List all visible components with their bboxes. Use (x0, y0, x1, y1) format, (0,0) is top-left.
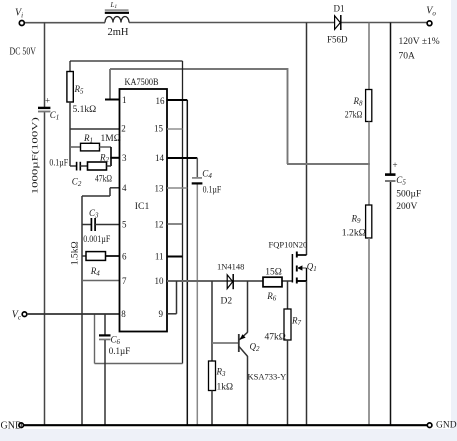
inductor L1 (105, 1, 129, 38)
svg-text:+: + (393, 160, 398, 170)
svg-text:2mH: 2mH (108, 27, 129, 38)
wire pin 9 stub (167, 313, 177, 315)
svg-text:70A: 70A (399, 52, 416, 62)
diode D2 (227, 275, 233, 289)
svg-text:5: 5 (122, 220, 127, 230)
svg-text:2: 2 (121, 124, 126, 134)
transistor Q1 FQP10N20 (269, 239, 317, 283)
svg-text:1.2kΩ: 1.2kΩ (342, 229, 366, 239)
capacitor C6 (104, 314, 106, 335)
terminal Vo (427, 21, 432, 26)
svg-text:200V: 200V (396, 202, 417, 212)
svg-text:1000µF(100V): 1000µF(100V) (29, 117, 39, 194)
pin numbers left (121, 95, 127, 319)
svg-text:4: 4 (122, 183, 127, 193)
svg-text:3: 3 (122, 153, 127, 163)
svg-text:500µF: 500µF (396, 190, 421, 200)
svg-text:12: 12 (155, 220, 164, 230)
resistor R5 (67, 72, 73, 103)
svg-text:8: 8 (121, 309, 126, 319)
svg-text:11: 11 (155, 252, 164, 262)
wire pin 13 stub (167, 187, 187, 189)
wire top rail (25, 22, 428, 24)
svg-text:1MΩ: 1MΩ (101, 134, 121, 144)
svg-text:DC 50V: DC 50V (10, 47, 37, 58)
wire R7 branch (287, 281, 289, 309)
resistor R1 (70, 146, 81, 148)
wire pin 4 jog (110, 187, 120, 189)
terminal Vi (19, 21, 24, 26)
wire C5 branch (390, 23, 392, 175)
wire pin 10 long (167, 280, 292, 282)
op-amp IC1 KA7500B box (120, 89, 168, 332)
wire x70 down to C2 (69, 129, 71, 166)
svg-text:13: 13 (155, 184, 165, 194)
wire R5 bottom (69, 102, 71, 129)
wire pin 1 stub (105, 99, 120, 101)
capacitor C3 (82, 224, 91, 226)
svg-text:5.1kΩ: 5.1kΩ (73, 105, 97, 115)
wire R9 to GND (368, 238, 370, 425)
svg-text:1: 1 (122, 95, 127, 105)
wire feedback net pin1 (110, 68, 370, 164)
svg-text:KA7500B: KA7500B (125, 78, 159, 88)
svg-text:6: 6 (122, 252, 127, 262)
svg-text:14: 14 (155, 153, 165, 163)
wire R8 to R9 (368, 122, 370, 206)
wire pin 16 stub and ground line (167, 99, 187, 101)
svg-text:0.1µF: 0.1µF (49, 159, 68, 169)
wire pin 7 stub (82, 280, 120, 282)
svg-text:0.1µF: 0.1µF (109, 346, 130, 356)
terminal Vc (22, 312, 27, 317)
wire x82 vertical to GND (81, 196, 83, 425)
svg-text:GND: GND (1, 421, 23, 432)
diode D1 (327, 3, 348, 44)
capacitor C5 (385, 160, 421, 212)
wire Vc to pin 8 (27, 313, 120, 315)
wire R1/R2 right join to pin 3 (110, 147, 112, 166)
svg-text:0.1µF: 0.1µF (203, 184, 222, 194)
resistor R3 (209, 361, 216, 391)
svg-text:10: 10 (155, 276, 165, 286)
svg-text:47kΩ: 47kΩ (265, 333, 286, 343)
svg-text:GND: GND (436, 421, 457, 431)
svg-text:16: 16 (156, 96, 166, 106)
wire pin 2 stub (70, 128, 120, 130)
svg-text:120V ±1%: 120V ±1% (399, 37, 440, 47)
capacitor C2 (70, 165, 76, 167)
resistor R6 (263, 277, 282, 287)
svg-text:27kΩ: 27kΩ (345, 111, 363, 121)
svg-text:FQP10N20: FQP10N20 (269, 239, 308, 249)
resistor R7 (284, 309, 291, 340)
svg-text:F56D: F56D (327, 35, 348, 45)
svg-text:7: 7 (122, 276, 127, 286)
wire R3 branch (211, 281, 213, 361)
capacitor C1 (29, 96, 59, 195)
ground terminal right (427, 423, 432, 428)
wire C1 branch (44, 23, 46, 108)
svg-text:D2: D2 (221, 297, 233, 307)
svg-text:0.001µF: 0.001µF (83, 234, 110, 244)
ground bus (24, 424, 428, 426)
capacitor C4 (192, 177, 202, 179)
wire Q1 source to GND (306, 281, 308, 425)
wire pin 15 stub (167, 128, 183, 130)
wire pin 11 stub (167, 256, 183, 258)
wire pin 14 stub to C4 (167, 157, 197, 159)
svg-text:+: + (45, 96, 50, 106)
resistor R4 (82, 255, 86, 257)
wire R8 branch (368, 23, 370, 91)
svg-text:47kΩ: 47kΩ (95, 174, 112, 184)
pin numbers right (154, 96, 165, 319)
resistor R9 (366, 205, 372, 238)
svg-text:1.5kΩ: 1.5kΩ (70, 241, 80, 265)
svg-text:9: 9 (159, 309, 164, 319)
svg-text:D1: D1 (334, 3, 345, 13)
svg-text:15: 15 (154, 124, 164, 134)
resistor R8 (366, 90, 372, 122)
wire pin 12 stub (167, 223, 183, 225)
resistor R2 (88, 162, 107, 170)
svg-text:1N4148: 1N4148 (217, 261, 244, 271)
wire Q1 drain from rail (306, 23, 308, 256)
svg-text:IC1: IC1 (135, 202, 150, 212)
ground terminal left (19, 423, 24, 428)
svg-text:15Ω: 15Ω (265, 267, 282, 277)
wire C5 to GND (390, 182, 392, 425)
wire R5 top net (70, 60, 183, 62)
svg-text:KSA733-Y: KSA733-Y (248, 372, 287, 382)
svg-text:1kΩ: 1kΩ (217, 383, 234, 393)
transistor Q2 KSA733 (212, 281, 286, 425)
